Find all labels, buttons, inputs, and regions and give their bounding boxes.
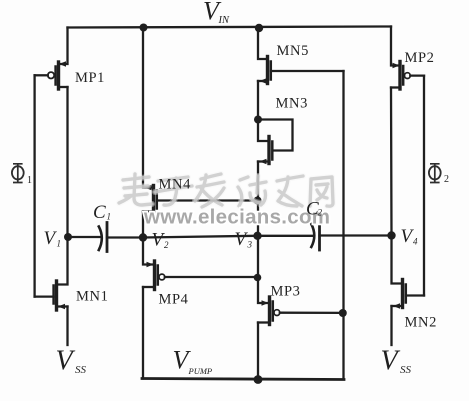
label V2 — [152, 230, 170, 251]
capacitor C2 — [311, 221, 319, 251]
label VIN — [203, 0, 230, 26]
transistor MP3 — [258, 297, 343, 325]
svg-text:2: 2 — [164, 240, 169, 250]
wire C2 to V4 — [320, 234, 392, 236]
transistor MN1 — [35, 281, 68, 310]
wire MP3 source down to VPUMP rail — [257, 323, 259, 380]
transistor MP1 — [35, 61, 68, 89]
node MN4 gate junction — [254, 197, 262, 205]
label V3 — [235, 229, 253, 250]
svg-text:V: V — [235, 229, 249, 250]
node phi2 line — [423, 76, 425, 296]
wire right column MP2 drain to rail — [391, 27, 400, 66]
label VSS left — [56, 346, 87, 377]
svg-text:SS: SS — [75, 364, 87, 376]
wire MN4 source down to V2 — [142, 212, 144, 238]
node MP3 gate junction — [339, 309, 347, 317]
wire MN2 source to VSS — [390, 306, 392, 345]
wire MP2 source down to V4 — [390, 88, 393, 236]
transistor MP4 — [143, 261, 258, 290]
node MP4 gate junction — [254, 274, 262, 282]
transistor MP2 — [391, 62, 424, 90]
svg-text:MN2: MN2 — [405, 315, 437, 331]
transistor MN4 — [143, 185, 157, 214]
wire pump-side vertical line — [342, 71, 344, 379]
wire MN4 gate to V3 line — [157, 199, 258, 201]
node phi1 line — [33, 75, 35, 296]
wire MN1 source to VSS — [66, 307, 68, 346]
svg-text:www.elecians.com: www.elecians.com — [143, 206, 330, 229]
node V1 — [64, 233, 72, 241]
svg-text:MN3: MN3 — [276, 96, 308, 112]
transistor MN3 — [258, 137, 272, 165]
label C2 — [306, 199, 323, 220]
wire V1 to C1 — [68, 236, 102, 238]
node V4 — [387, 231, 395, 239]
node junction top rail to MN4 branch — [140, 24, 148, 32]
wire rail down to MN5 drain — [258, 28, 268, 59]
svg-text:1: 1 — [57, 239, 62, 249]
svg-text:MN5: MN5 — [277, 43, 309, 59]
wire left column MP1 drain to rail — [59, 28, 68, 65]
wire MN3 source down to V3 — [257, 162, 259, 236]
svg-text:MP1: MP1 — [75, 70, 105, 86]
svg-text:PUMP: PUMP — [188, 366, 213, 376]
svg-text:1: 1 — [107, 212, 112, 222]
wire V2 down to MP4 drain — [143, 238, 155, 265]
svg-text:V: V — [44, 228, 58, 249]
svg-text:IN: IN — [218, 15, 230, 26]
label C1 — [93, 202, 111, 223]
svg-text:4: 4 — [413, 237, 418, 247]
node VPUMP rail junction — [254, 375, 263, 384]
watermark chinese characters — [119, 174, 333, 207]
svg-text:3: 3 — [247, 240, 253, 250]
label VPUMP — [173, 346, 213, 377]
node V2 — [139, 233, 147, 241]
wire top VIN rail — [68, 27, 392, 28]
svg-text:MP2: MP2 — [405, 50, 435, 66]
wire V1 down to MN1 drain — [57, 237, 68, 285]
wire V3 down to MP3 drain — [258, 236, 270, 303]
svg-text:MN4: MN4 — [159, 177, 192, 193]
svg-text:1: 1 — [27, 175, 32, 186]
svg-text:C: C — [93, 202, 106, 223]
label VSS right — [381, 346, 412, 377]
transistor MN5 — [258, 57, 271, 84]
wire MP4 source down to VPUMP rail — [142, 287, 144, 379]
wire MN3 gate loop — [258, 120, 293, 151]
label V1 — [44, 228, 62, 249]
transistor MN2 — [392, 280, 425, 309]
wire MN5 gate over to pump-side line — [271, 70, 344, 72]
wire rail down to MN4 drain — [143, 28, 154, 188]
wire VPUMP rail — [142, 379, 344, 380]
svg-text:2: 2 — [318, 208, 323, 218]
node junction top rail to MN5 branch — [255, 24, 263, 32]
label V4 — [401, 226, 419, 247]
svg-text:MP3: MP3 — [271, 284, 301, 300]
wire MP1 source down to V1 — [66, 87, 68, 237]
svg-text:V: V — [381, 346, 401, 377]
wire V4 down to MN2 drain — [392, 236, 403, 284]
svg-text:MP4: MP4 — [159, 292, 189, 308]
label phi2 — [429, 164, 449, 185]
capacitor C1 — [99, 223, 107, 252]
svg-text:SS: SS — [400, 364, 412, 376]
svg-text:MN1: MN1 — [76, 289, 108, 305]
node V3 — [253, 232, 261, 240]
label phi1 — [12, 164, 32, 186]
wire MN3 drain — [258, 120, 269, 142]
wire MN5 source down — [257, 81, 259, 120]
svg-text:2: 2 — [444, 174, 449, 185]
node MN3 gate-drain junction — [254, 116, 262, 124]
svg-text:V: V — [56, 346, 76, 377]
wire C1 to V2 to V3 — [107, 236, 312, 238]
